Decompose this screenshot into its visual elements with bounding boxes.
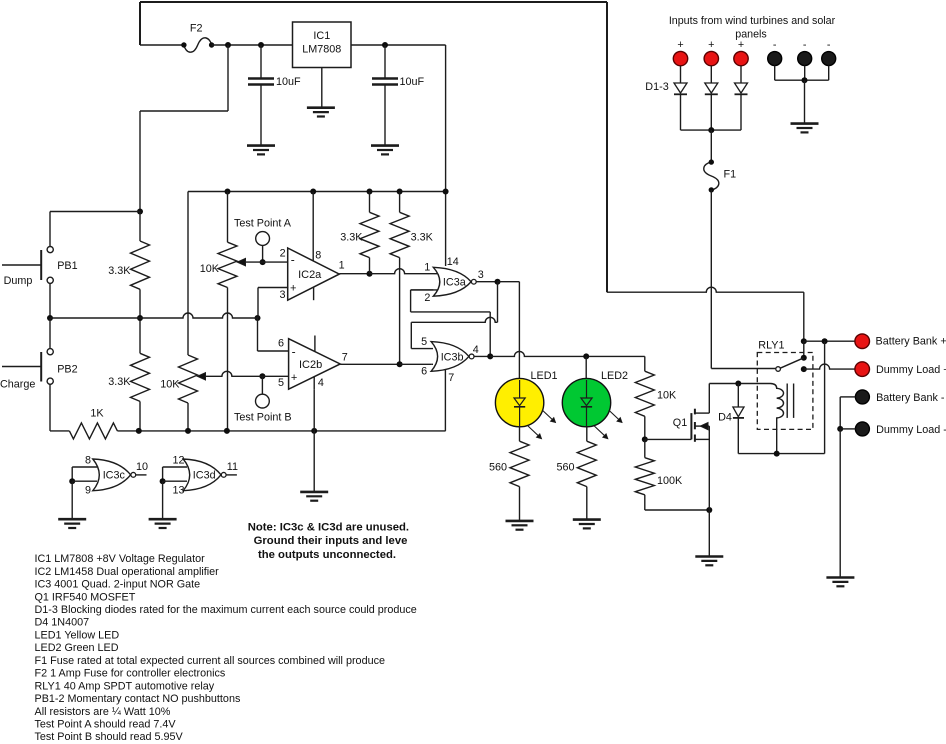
svg-text:-: - bbox=[803, 39, 807, 51]
svg-text:560: 560 bbox=[556, 461, 574, 473]
svg-text:-: - bbox=[773, 39, 777, 51]
svg-text:LED2: LED2 bbox=[601, 370, 628, 382]
svg-text:7: 7 bbox=[342, 351, 348, 363]
svg-text:12: 12 bbox=[172, 455, 184, 467]
svg-text:F2 1 Amp Fuse for controller e: F2 1 Amp Fuse for controller electronics bbox=[35, 668, 226, 680]
svg-text:IC2a: IC2a bbox=[298, 269, 322, 281]
svg-text:7: 7 bbox=[448, 372, 454, 384]
svg-text:+: + bbox=[708, 39, 714, 51]
svg-text:3.3K: 3.3K bbox=[411, 231, 434, 243]
svg-text:F1: F1 bbox=[723, 168, 736, 180]
svg-text:Test Point A: Test Point A bbox=[234, 217, 292, 229]
svg-text:Battery Bank +: Battery Bank + bbox=[876, 335, 946, 347]
svg-text:LED2 Green LED: LED2 Green LED bbox=[35, 642, 119, 654]
svg-text:LED1: LED1 bbox=[531, 370, 558, 382]
svg-text:10: 10 bbox=[136, 461, 148, 473]
svg-text:LED1 Yellow LED: LED1 Yellow LED bbox=[35, 629, 120, 641]
svg-text:Battery Bank -: Battery Bank - bbox=[876, 392, 945, 404]
svg-text:LM7808: LM7808 bbox=[302, 43, 341, 55]
svg-text:F2: F2 bbox=[190, 23, 203, 35]
svg-text:10uF: 10uF bbox=[276, 76, 301, 88]
svg-text:1K: 1K bbox=[90, 407, 104, 419]
svg-text:100K: 100K bbox=[657, 475, 683, 487]
svg-text:the outputs unconnected.: the outputs unconnected. bbox=[258, 549, 396, 561]
svg-text:1: 1 bbox=[339, 260, 345, 272]
svg-text:10K: 10K bbox=[160, 378, 180, 390]
svg-text:Test Point B: Test Point B bbox=[234, 411, 292, 423]
svg-text:3.3K: 3.3K bbox=[108, 376, 131, 388]
svg-text:-: - bbox=[292, 344, 296, 358]
svg-text:D4 1N4007: D4 1N4007 bbox=[35, 617, 90, 629]
svg-text:IC3b: IC3b bbox=[441, 351, 464, 363]
svg-text:Test Point B should read 5.95V: Test Point B should read 5.95V bbox=[35, 731, 184, 743]
svg-text:PB1: PB1 bbox=[57, 260, 77, 272]
svg-text:Dummy Load +: Dummy Load + bbox=[876, 364, 946, 376]
svg-text:2: 2 bbox=[280, 247, 286, 259]
svg-text:Inputs from wind turbines and: Inputs from wind turbines and solar bbox=[669, 15, 836, 27]
svg-text:3.3K: 3.3K bbox=[340, 231, 363, 243]
svg-text:3: 3 bbox=[279, 289, 285, 301]
svg-text:+: + bbox=[290, 282, 296, 294]
svg-text:Q1: Q1 bbox=[673, 417, 687, 429]
svg-text:Test Point A should read 7.4V: Test Point A should read 7.4V bbox=[35, 719, 177, 731]
svg-text:8: 8 bbox=[85, 455, 91, 467]
svg-text:F1 Fuse rated at total expecte: F1 Fuse rated at total expected current … bbox=[35, 655, 385, 667]
svg-text:Dummy Load -: Dummy Load - bbox=[876, 424, 946, 436]
svg-text:D1-3 Blocking diodes rated for: D1-3 Blocking diodes rated for the maxim… bbox=[35, 604, 417, 616]
svg-text:9: 9 bbox=[85, 485, 91, 497]
svg-text:10K: 10K bbox=[200, 263, 220, 275]
svg-text:IC3a: IC3a bbox=[443, 277, 466, 289]
svg-text:560: 560 bbox=[489, 461, 507, 473]
svg-text:+: + bbox=[677, 39, 683, 51]
svg-text:13: 13 bbox=[172, 485, 184, 497]
svg-text:4: 4 bbox=[318, 377, 324, 389]
svg-text:PB1-2 Momentary contact NO pus: PB1-2 Momentary contact NO pushbuttons bbox=[35, 693, 241, 705]
svg-text:Charge: Charge bbox=[0, 378, 35, 390]
svg-text:1: 1 bbox=[424, 261, 430, 273]
svg-text:Note: IC3c & IC3d are unused.: Note: IC3c & IC3d are unused. bbox=[248, 521, 409, 533]
svg-text:Ground their inputs and leve: Ground their inputs and leve bbox=[254, 535, 408, 547]
svg-text:Dump: Dump bbox=[4, 275, 33, 287]
svg-text:IC3c: IC3c bbox=[103, 470, 126, 482]
svg-text:Q1 IRF540 MOSFET: Q1 IRF540 MOSFET bbox=[35, 591, 136, 603]
svg-text:IC3d: IC3d bbox=[193, 470, 216, 482]
svg-text:RLY1 40 Amp SPDT automotive re: RLY1 40 Amp SPDT automotive relay bbox=[35, 680, 215, 692]
svg-text:11: 11 bbox=[227, 461, 238, 473]
svg-text:14: 14 bbox=[447, 256, 459, 268]
svg-text:6: 6 bbox=[421, 366, 427, 378]
svg-text:D1-3: D1-3 bbox=[645, 81, 668, 93]
svg-text:IC3 4001 Quad. 2-input NOR Gat: IC3 4001 Quad. 2-input NOR Gate bbox=[35, 579, 201, 591]
svg-text:10K: 10K bbox=[657, 389, 677, 401]
svg-text:IC2 LM1458 Dual operational am: IC2 LM1458 Dual operational amplifier bbox=[35, 566, 220, 578]
svg-text:5: 5 bbox=[421, 336, 427, 348]
svg-text:2: 2 bbox=[424, 292, 430, 304]
svg-text:3: 3 bbox=[478, 269, 484, 281]
svg-text:-: - bbox=[291, 253, 295, 267]
svg-text:6: 6 bbox=[278, 337, 284, 349]
svg-text:+: + bbox=[291, 372, 297, 384]
svg-text:PB2: PB2 bbox=[57, 363, 77, 375]
svg-text:IC1 LM7808 +8V Voltage Regulat: IC1 LM7808 +8V Voltage Regulator bbox=[35, 553, 206, 565]
svg-text:+: + bbox=[738, 39, 744, 51]
svg-text:IC1: IC1 bbox=[313, 30, 330, 42]
svg-text:IC2b: IC2b bbox=[299, 359, 322, 371]
svg-text:4: 4 bbox=[473, 344, 479, 356]
svg-text:All resistors are ¼ Watt 10%: All resistors are ¼ Watt 10% bbox=[35, 706, 171, 718]
svg-text:D4: D4 bbox=[718, 411, 732, 423]
svg-text:-: - bbox=[827, 39, 831, 51]
svg-text:3.3K: 3.3K bbox=[108, 265, 131, 277]
svg-text:RLY1: RLY1 bbox=[758, 339, 784, 351]
svg-text:5: 5 bbox=[278, 377, 284, 389]
svg-text:10uF: 10uF bbox=[400, 76, 425, 88]
svg-text:8: 8 bbox=[315, 250, 321, 262]
